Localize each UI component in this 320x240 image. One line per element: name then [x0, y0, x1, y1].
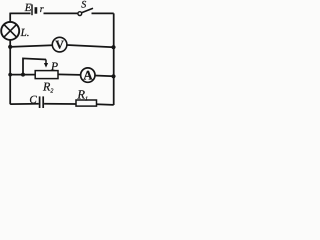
wire ammeter to right wire	[95, 75, 114, 78]
svg-text:V: V	[55, 38, 64, 52]
wire voltmeter branch right	[67, 45, 114, 47]
wire switch to top-right corner	[92, 12, 114, 14]
node wiper loop junction	[21, 73, 25, 77]
wire rheostat to ammeter	[58, 73, 81, 76]
wire battery to switch	[44, 12, 79, 14]
switch S	[78, 8, 93, 15]
wire right side	[113, 13, 115, 105]
svg-text:r: r	[40, 4, 44, 15]
node on right wire at ammeter branch	[111, 74, 115, 78]
node on right wire at voltmeter branch	[111, 45, 115, 49]
lamp L	[1, 22, 19, 40]
wire capacitor to R1	[44, 103, 76, 105]
wire R1 to bottom-right corner	[97, 103, 114, 106]
battery E r	[32, 4, 36, 15]
wire left top (corner to lamp)	[9, 13, 11, 23]
wire rheostat branch left	[10, 74, 35, 76]
node on left wire at voltmeter branch	[8, 45, 12, 49]
svg-text:L.: L.	[20, 27, 30, 39]
resistor R1 box	[76, 100, 97, 106]
svg-text:A: A	[83, 67, 93, 82]
wire top-left segment	[10, 12, 30, 14]
voltmeter U V	[52, 37, 67, 52]
ammeter U A	[81, 68, 95, 82]
svg-text:S: S	[81, 0, 86, 10]
capacitor C plates	[40, 96, 44, 108]
rheostat R2 box	[35, 71, 58, 79]
wire voltmeter branch left	[10, 45, 52, 47]
node on left wire at rheostat branch	[8, 73, 12, 77]
svg-text:C: C	[29, 94, 37, 106]
wiper loop wire	[23, 58, 46, 74]
svg-text:P: P	[50, 61, 58, 73]
wire bottom-left segment	[10, 103, 39, 105]
wire left side (lamp to bottom corner)	[9, 40, 11, 105]
wiper P arrow	[44, 60, 48, 68]
svg-text:E: E	[24, 2, 32, 14]
